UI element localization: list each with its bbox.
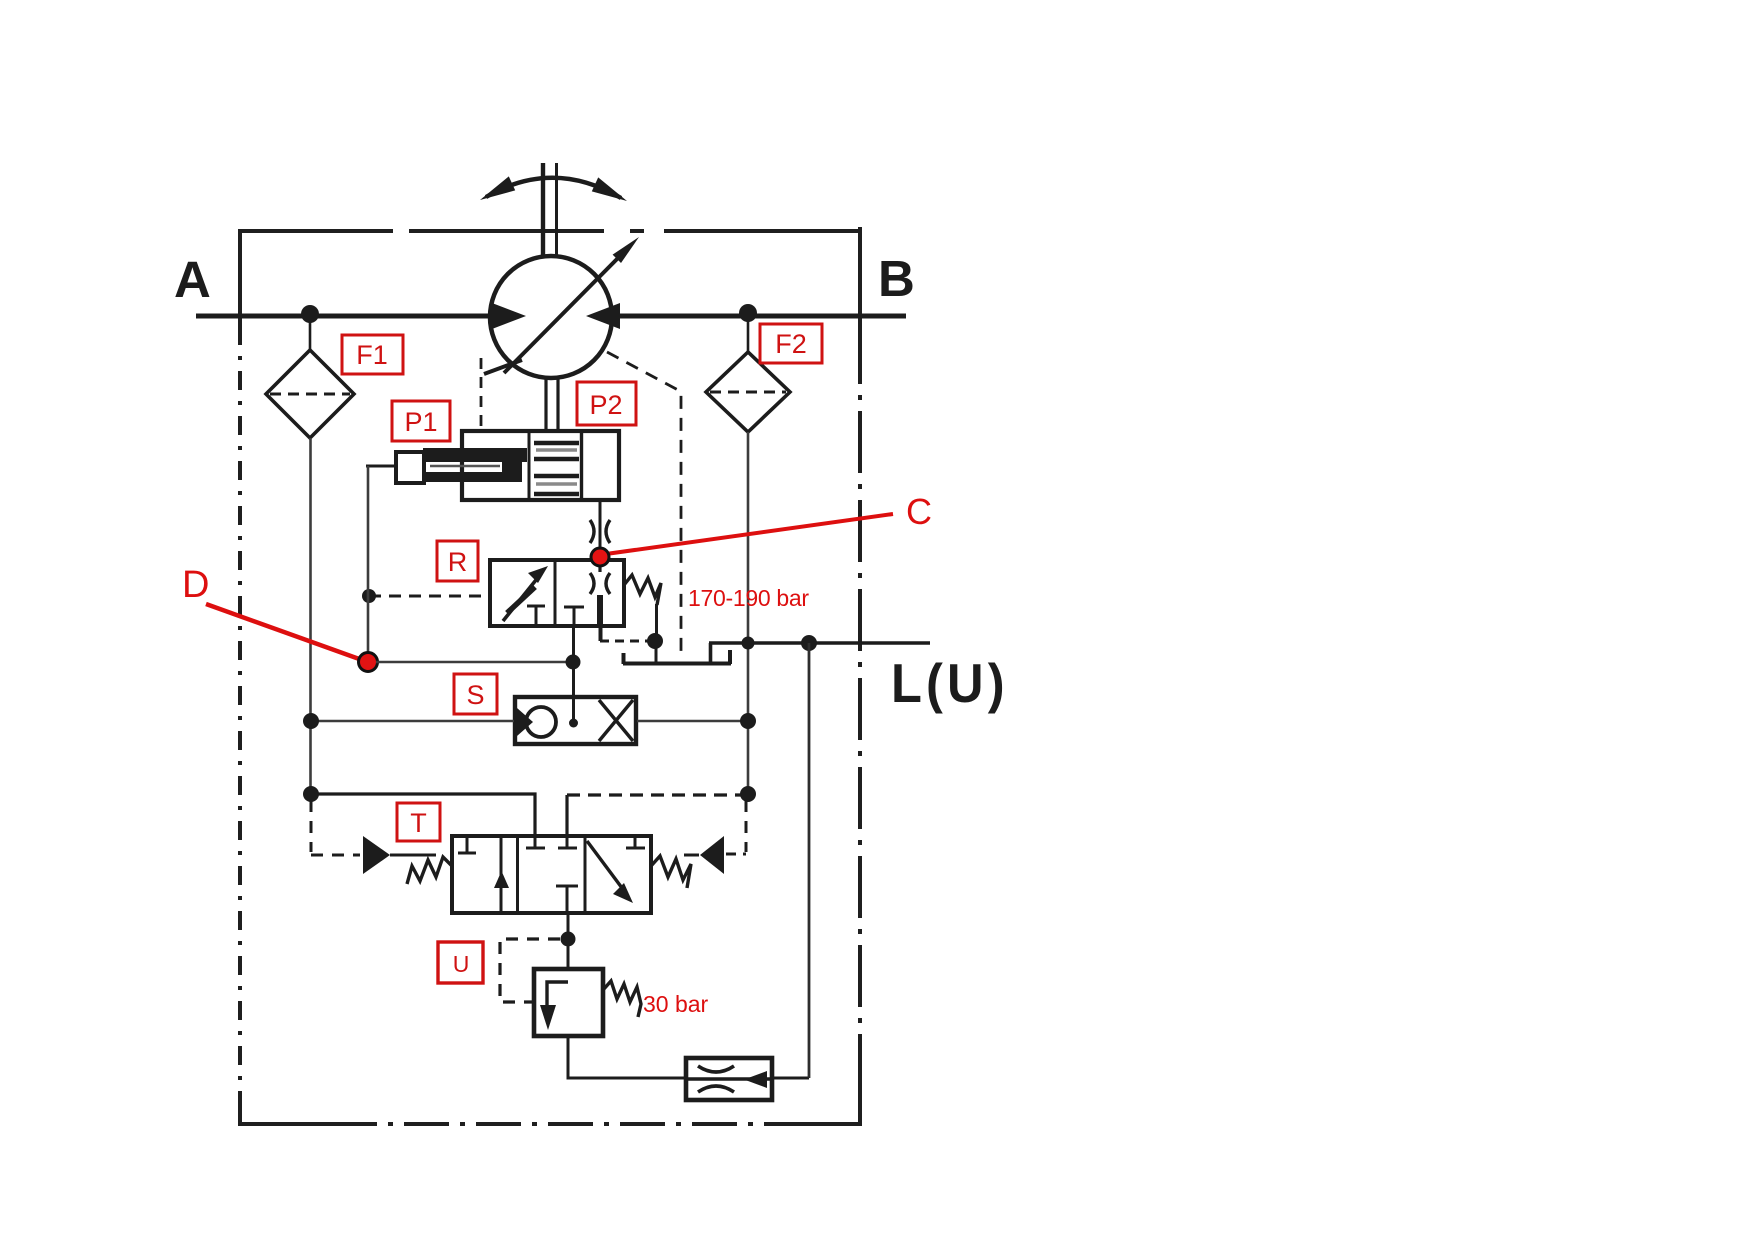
svg-text:170-190 bar: 170-190 bar [688, 585, 809, 611]
wire B (main line right) [616, 314, 906, 319]
relief valve U spring (30 bar) [603, 981, 641, 1017]
valve T check poppet [494, 871, 509, 888]
relief valve U arrow [540, 982, 568, 1030]
label box T [397, 803, 440, 841]
tank cup (drain collector) [623, 650, 731, 664]
node: T right junction [740, 786, 756, 802]
wire valve R bottom to spring junction [600, 626, 650, 641]
label box F1 [342, 335, 403, 374]
label box U [438, 942, 483, 983]
svg-text:R: R [448, 547, 468, 577]
node: orifice riser junction [801, 635, 817, 651]
svg-text:30 bar: 30 bar [643, 991, 709, 1017]
wire restrictor to L(U) riser [772, 1077, 809, 1080]
callout line D (red) [206, 604, 362, 660]
valve R spring (170-190 bar) [624, 575, 661, 605]
flow restrictor arrow [744, 1071, 767, 1088]
wire pump drain right diagonal (dashed) [607, 352, 681, 659]
shuttle valve S left seat [517, 708, 533, 736]
valve T left spring [407, 857, 452, 884]
svg-text:B: B [878, 250, 915, 307]
enclosure border (dash-dot frame) [238, 227, 862, 1126]
shuttle valve S body [515, 697, 636, 744]
wire spring to junction [655, 604, 658, 641]
shuttle valve S right seat (cross) [599, 700, 633, 741]
label box S [454, 674, 497, 714]
shuttle valve S ball [526, 707, 556, 737]
wire pump case drain left (dashed) [480, 358, 483, 430]
svg-text:F1: F1 [356, 340, 388, 370]
rotation arrow (double-headed arc) [480, 176, 627, 201]
valve T left pilot arrow [363, 836, 390, 874]
drive shaft [543, 163, 557, 257]
svg-text:T: T [410, 808, 427, 838]
arrowhead into pump from A [492, 303, 526, 329]
wire P1 rod down to node D [367, 466, 370, 662]
flow restrictor body [686, 1058, 772, 1100]
valve R right cell tank port [564, 607, 584, 626]
wire R tank port down into shuttle S [572, 626, 575, 724]
node: T left junction [303, 786, 319, 802]
svg-text:L(U): L(U) [891, 653, 1009, 714]
callout line C (red) [606, 514, 893, 554]
wire B to F2 [747, 316, 750, 353]
wire junction down to tank cup [655, 641, 658, 663]
wire A to F1 [309, 316, 312, 351]
node: S left junction [303, 713, 319, 729]
label box P1 [392, 401, 450, 441]
label box R [437, 541, 478, 581]
svg-text:A: A [174, 251, 211, 308]
wire T supply line left [311, 794, 535, 836]
flow restrictor orifice [688, 1066, 770, 1092]
valve R left cell drain port [527, 606, 545, 626]
wire A (main line left) [196, 314, 496, 319]
label box F2 [760, 324, 822, 363]
wire S right to F2 line [637, 720, 748, 723]
wire F2 down to T level [747, 432, 750, 795]
filter F2 [706, 352, 790, 432]
variable displacement arrow through pump [484, 237, 639, 374]
valve T left cell blocked port [458, 836, 476, 853]
node C (red) [591, 548, 609, 566]
wire piston rod to D line [366, 465, 397, 468]
orifice on P2-R line [590, 520, 610, 543]
svg-text:P2: P2 [589, 390, 622, 420]
servo cylinder body [462, 431, 619, 500]
node: U pilot junction [561, 932, 576, 947]
wire pump to servo piston (double mechanical link) [546, 378, 558, 432]
valve R right cell: seat orifice [590, 560, 610, 626]
node: junction A/F1 [301, 305, 319, 323]
valve T left pilot dashes [311, 800, 360, 855]
valve T right pilot arrow [700, 836, 724, 874]
wire T bottom to relief valve U [567, 913, 570, 969]
wire T supply line right (dashed) [567, 795, 746, 836]
wire node D to S riser [376, 661, 573, 664]
arrowhead into pump from B [586, 303, 620, 329]
node: junction B/F2 [739, 304, 757, 322]
relief valve U body [534, 969, 603, 1036]
node D (red) [359, 653, 378, 672]
valve T body [452, 836, 651, 913]
wire L(U) branch down to cup [709, 643, 713, 663]
wire S left to F1 line [311, 720, 514, 723]
pump/motor U1 (variable displacement unit) [490, 256, 612, 378]
svg-text:C: C [906, 491, 932, 532]
node: spring junction [647, 633, 663, 649]
svg-text:F2: F2 [775, 329, 807, 359]
valve T right cell flow arrow [587, 836, 645, 903]
valve T middle cell ports [526, 836, 578, 913]
wire riser up to L(U) [808, 643, 811, 1078]
label box P2 [577, 382, 636, 425]
filter F1 [266, 350, 354, 438]
svg-text:D: D [182, 564, 209, 606]
node: crossing F2 line [742, 637, 755, 650]
wire P2 down to valve R [599, 500, 602, 560]
relief valve U pilot (dashed) [500, 939, 560, 1002]
svg-text:P1: P1 [404, 407, 437, 437]
svg-text:U: U [453, 951, 470, 977]
node: S right junction [740, 713, 756, 729]
port L(U) wire [709, 641, 930, 645]
node: R tank / S riser junction [566, 655, 581, 670]
valve R left cell: variable throttle arrow [503, 566, 548, 621]
wire F1 down to S level [309, 438, 312, 795]
node: pilot junction on D line [362, 589, 376, 603]
valve T right pilot dashes [726, 800, 746, 854]
valve T right spring [651, 856, 691, 888]
valve R pilot line (dashed from node D) [369, 595, 489, 598]
svg-text:S: S [466, 680, 484, 710]
spring stack P2 [529, 432, 582, 499]
valve R body [490, 560, 624, 626]
wire U bottom to restrictor [568, 1036, 687, 1078]
servo piston P1 [396, 448, 527, 483]
